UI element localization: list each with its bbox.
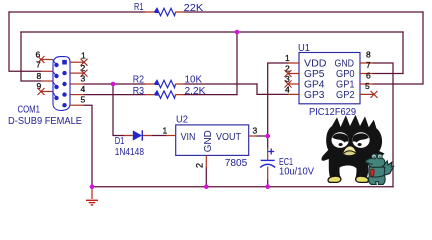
wire GND riser right xyxy=(373,63,393,187)
right eyelid xyxy=(352,133,369,142)
svg-text:10K: 10K xyxy=(185,75,203,86)
svg-text:3: 3 xyxy=(253,126,258,136)
pin 8 stub xyxy=(41,80,53,82)
resistor R3 xyxy=(133,86,206,98)
svg-text:5: 5 xyxy=(365,81,370,91)
junction dot N2/R3 xyxy=(235,30,240,35)
penguin body xyxy=(321,147,375,178)
connector pin dots left column xyxy=(54,63,58,67)
wire R3 row xyxy=(84,94,237,96)
svg-text:7805: 7805 xyxy=(225,158,248,169)
svg-text:GP4: GP4 xyxy=(304,80,325,91)
wire R2 to GP3 step xyxy=(257,84,288,94)
plus sign xyxy=(268,149,274,155)
svg-text:10u/10V: 10u/10V xyxy=(279,167,314,178)
right foot xyxy=(356,176,369,182)
left eyelid xyxy=(332,133,349,142)
svg-text:6: 6 xyxy=(366,71,371,81)
connector body outline xyxy=(53,57,70,111)
U2 pin2 stub xyxy=(205,155,207,168)
pin 1 stub xyxy=(71,61,85,63)
svg-text:2.2K: 2.2K xyxy=(185,86,206,97)
svg-text:GP5: GP5 xyxy=(304,69,325,80)
U2 pin1 stub xyxy=(166,135,176,137)
svg-text:R2: R2 xyxy=(133,75,145,86)
svg-text:R3: R3 xyxy=(133,86,145,97)
no-connect X pin9 xyxy=(38,88,45,95)
wire ground rail xyxy=(92,186,393,188)
svg-text:GND: GND xyxy=(335,59,355,70)
pin 6 stub xyxy=(41,59,53,61)
wire VOUT to junction xyxy=(256,135,268,137)
wire N1 left drop to pin7 xyxy=(9,12,41,71)
wire N2 left drop to pin8 xyxy=(21,32,41,81)
svg-text:VDD: VDD xyxy=(304,59,327,70)
connector pin dots right column xyxy=(62,71,66,75)
pin 5 stub xyxy=(71,104,85,106)
svg-text:5: 5 xyxy=(81,95,86,105)
left eye white xyxy=(332,132,349,148)
svg-text:D-SUB9 FEMALE: D-SUB9 FEMALE xyxy=(8,116,82,127)
wire net N2 horizontal y=32 xyxy=(21,31,403,33)
gator eyes xyxy=(372,154,377,159)
pin 2 stub xyxy=(71,72,85,74)
right eye white xyxy=(352,132,369,148)
resistor R2 xyxy=(133,75,203,88)
svg-text:8: 8 xyxy=(366,50,371,60)
gator front leg line xyxy=(369,175,384,177)
svg-text:1: 1 xyxy=(81,51,86,61)
svg-text:VOUT: VOUT xyxy=(216,132,241,143)
svg-text:3: 3 xyxy=(81,74,86,84)
no-connect X U1 pin5 xyxy=(371,91,378,98)
diode D1 1N4148 xyxy=(115,130,152,158)
junction dot rail/EC1 xyxy=(265,184,270,189)
penguin head with spikes xyxy=(326,115,382,159)
junction dot R2/D1 xyxy=(111,82,116,87)
no-connect X U1 pin3 xyxy=(285,81,292,88)
gator tail spikes xyxy=(384,161,394,176)
wire VDD riser xyxy=(268,63,288,136)
svg-text:1: 1 xyxy=(163,126,168,136)
junction dot rail/U2pin2 xyxy=(204,184,209,189)
wire N2 right drop to GP0 xyxy=(373,32,403,74)
svg-text:4: 4 xyxy=(81,84,86,94)
svg-text:GP1: GP1 xyxy=(336,80,355,91)
wire R2 row xyxy=(84,83,257,85)
U1 pin stubs left xyxy=(288,63,299,94)
junction dot VOUT/EC1 xyxy=(265,134,270,139)
svg-text:U1: U1 xyxy=(298,43,310,54)
no-connect X U1 pin2 xyxy=(285,70,292,77)
gator body xyxy=(369,165,386,185)
no-connect X pin1 xyxy=(81,59,88,66)
svg-text:1: 1 xyxy=(285,53,290,63)
svg-text:D1: D1 xyxy=(115,136,125,147)
pin entry diagonals xyxy=(53,60,57,99)
gator head xyxy=(366,154,385,167)
U1 box xyxy=(299,53,360,104)
wire net N1 top horizontal xyxy=(9,11,423,13)
U2 pin3 stub xyxy=(249,135,256,137)
wire N2 drop to R3 xyxy=(236,32,238,95)
svg-text:R1: R1 xyxy=(134,2,144,13)
resistor R1 xyxy=(134,2,204,16)
svg-text:U2: U2 xyxy=(176,115,188,126)
mascot graphic Badtz-Maru penguin xyxy=(321,115,393,185)
svg-text:VIN: VIN xyxy=(181,132,196,143)
no-connect X pin6 xyxy=(38,56,45,63)
connector COM1 D-SUB9 female xyxy=(8,49,88,127)
pin 9 stub xyxy=(41,91,53,93)
left pupil xyxy=(339,143,343,146)
IC U1 PIC12F629 xyxy=(285,43,378,118)
junction dot rail/ground xyxy=(90,184,95,189)
wire N1 right drop to GP1 xyxy=(373,12,423,84)
svg-text:COM1: COM1 xyxy=(18,105,41,116)
pin 3 stub xyxy=(71,83,85,85)
svg-text:GP0: GP0 xyxy=(336,69,355,80)
left foot xyxy=(328,176,341,182)
wire pin5 to ground rail xyxy=(84,105,92,187)
svg-text:2: 2 xyxy=(195,163,205,168)
svg-text:8: 8 xyxy=(37,71,42,81)
wire EC1 to rail xyxy=(267,136,269,187)
regulator U2 7805 xyxy=(163,115,258,170)
penguin right wing xyxy=(366,148,385,158)
svg-text:GP3: GP3 xyxy=(304,90,325,101)
no-connect X pin2 xyxy=(81,70,88,77)
right pupil xyxy=(358,143,362,146)
capacitor EC1 xyxy=(260,148,314,180)
pin 4 stub xyxy=(71,94,85,96)
pin 7 stub xyxy=(41,70,53,72)
svg-text:GP2: GP2 xyxy=(336,90,355,101)
wire drop to D1 xyxy=(113,84,166,136)
svg-text:7: 7 xyxy=(366,60,371,70)
svg-text:GND: GND xyxy=(203,130,214,152)
U2 box xyxy=(176,125,249,155)
wire U2 pin2 to rail xyxy=(205,168,207,187)
beak xyxy=(343,146,356,153)
gator tongue xyxy=(371,169,375,177)
svg-text:PIC12F629: PIC12F629 xyxy=(309,107,356,118)
gator mouth line xyxy=(366,162,373,164)
pin 1 square marker xyxy=(62,60,67,65)
svg-text:1N4148: 1N4148 xyxy=(115,147,145,158)
ground symbol xyxy=(86,187,98,205)
U1 pin stubs right xyxy=(360,63,373,94)
svg-text:22K: 22K xyxy=(184,3,204,14)
